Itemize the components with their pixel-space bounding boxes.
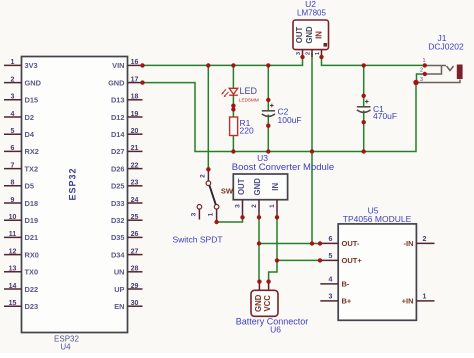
svg-text:ESP32: ESP32 <box>68 167 78 200</box>
svg-text:D15: D15 <box>25 96 39 105</box>
svg-text:D2: D2 <box>25 113 34 122</box>
U6 label Battery Connector <box>236 317 309 335</box>
svg-text:IN: IN <box>314 31 323 39</box>
svg-text:TX2: TX2 <box>25 164 39 173</box>
svg-text:-IN: -IN <box>404 239 414 248</box>
svg-text:OUT+: OUT+ <box>342 256 363 265</box>
node U3 OUT pin end <box>240 215 244 219</box>
svg-text:VIN: VIN <box>112 61 124 70</box>
node LED branch on VIN rail <box>231 63 235 67</box>
ESP32 pin 9 (D18) <box>4 197 38 208</box>
svg-text:OUT-: OUT- <box>342 239 360 248</box>
svg-text:9: 9 <box>11 197 15 204</box>
svg-text:21: 21 <box>131 145 139 152</box>
svg-text:220: 220 <box>240 126 254 136</box>
svg-text:D34: D34 <box>111 250 125 259</box>
wire switch pin1 to U3 OUT <box>217 217 243 222</box>
ESP32 module U4 body <box>22 57 128 333</box>
ESP32 pin 3 (D15) <box>4 94 38 105</box>
U2 pin 1 (IN) <box>315 50 322 57</box>
svg-text:100uF: 100uF <box>278 115 302 125</box>
node U5 OUT- pin end <box>318 241 322 245</box>
U3 pin 3 (OUT) <box>234 200 242 218</box>
svg-text:D12: D12 <box>111 113 125 122</box>
resistor R1 220 <box>230 117 254 136</box>
svg-text:2: 2 <box>306 52 312 55</box>
node C1 branch on input rail <box>362 63 366 67</box>
wire VIN rail (ESP32 pin16 to U2 OUT) <box>143 57 303 65</box>
node U3 GND pin end <box>257 215 261 219</box>
node switch branch on VIN rail <box>206 63 210 67</box>
capacitor C1 470uF (polarized) <box>357 100 397 121</box>
ESP32 pin 2 (GND) <box>4 76 42 87</box>
node U2 IN pin end <box>319 55 323 59</box>
svg-text:2: 2 <box>251 204 258 208</box>
ESP32 pin 12 (RX0) <box>4 248 39 259</box>
svg-text:+IN: +IN <box>402 297 414 306</box>
ESP32 pin 21 (D27) <box>111 145 143 156</box>
wire U2 IN to jack pin1 rail <box>322 57 425 65</box>
svg-text:4: 4 <box>11 111 15 118</box>
svg-text:4: 4 <box>329 276 333 283</box>
svg-text:D13: D13 <box>111 96 125 105</box>
boost converter module U3 <box>232 153 334 200</box>
svg-text:26: 26 <box>131 231 139 238</box>
svg-text:16: 16 <box>131 59 139 66</box>
wire U3 IN to U5 OUT+ <box>277 259 320 261</box>
voltage regulator U2 LM7805 <box>293 0 329 50</box>
svg-text:D26: D26 <box>111 164 125 173</box>
ESP32 pin 29 (UP) <box>114 283 142 294</box>
ESP32 pin 16 (VIN) <box>112 59 142 70</box>
svg-text:Switch SPDT: Switch SPDT <box>172 235 222 245</box>
svg-text:29: 29 <box>131 283 139 290</box>
svg-text:12: 12 <box>9 248 17 255</box>
ESP32 pin 18 (D13) <box>111 94 143 105</box>
svg-text:LED: LED <box>240 86 258 96</box>
svg-text:D22: D22 <box>25 285 39 294</box>
svg-text:Boost Converter Module: Boost Converter Module <box>232 162 334 173</box>
svg-text:470uF: 470uF <box>373 111 397 121</box>
svg-text:D27: D27 <box>111 147 125 156</box>
svg-text:DCJ0202: DCJ0202 <box>428 42 464 52</box>
ESP32 pin 5 (D4) <box>4 128 35 139</box>
node U5 OUT+ pin end <box>318 258 322 262</box>
svg-text:GND: GND <box>108 78 125 87</box>
U5 pin 4 (B-) <box>320 276 350 288</box>
svg-text:18: 18 <box>131 94 139 101</box>
node IN to OUT+ junction <box>275 258 279 262</box>
svg-text:11: 11 <box>9 231 17 238</box>
wire U3 GND to U5 OUT- <box>259 243 320 245</box>
svg-text:D23: D23 <box>25 302 39 311</box>
ESP32 pin 30 (EN) <box>114 300 142 311</box>
node U3 IN pin end <box>275 215 279 219</box>
capacitor C2 100uF (polarized) <box>262 104 302 125</box>
svg-text:TP4056 MODULE: TP4056 MODULE <box>343 214 412 224</box>
svg-text:D18: D18 <box>25 199 39 208</box>
U6 GND pin stub <box>258 282 260 291</box>
node U2 GND on GND rail <box>310 149 314 153</box>
ESP32 pin 23 (D25) <box>111 180 143 191</box>
wire LED cathode to R1 <box>232 95 234 117</box>
node R1 on GND rail <box>231 149 235 153</box>
svg-text:D4: D4 <box>25 130 35 139</box>
svg-text:20: 20 <box>131 128 139 135</box>
wire C2 branch bottom <box>267 115 269 152</box>
svg-text:D14: D14 <box>111 130 125 139</box>
ESP32 pin 17 (GND) <box>108 76 142 87</box>
svg-text:B-: B- <box>342 280 350 289</box>
svg-text:1: 1 <box>423 58 426 64</box>
svg-text:1: 1 <box>11 59 15 66</box>
svg-text:1: 1 <box>208 212 215 216</box>
svg-text:19: 19 <box>131 111 139 118</box>
battery connector U6 <box>251 290 278 316</box>
svg-text:5: 5 <box>11 128 15 135</box>
svg-text:U6: U6 <box>270 325 281 335</box>
svg-text:8: 8 <box>11 180 15 187</box>
node R1 top <box>231 107 235 111</box>
wire U2 GND vertical down to OUT- line <box>311 53 313 244</box>
svg-text:GND: GND <box>305 26 314 44</box>
ESP32 pin 1 (3V3) <box>4 59 38 70</box>
svg-text:2: 2 <box>11 76 15 83</box>
svg-text:3: 3 <box>190 212 197 216</box>
svg-text:28: 28 <box>131 266 139 273</box>
svg-text:RX0: RX0 <box>25 250 39 259</box>
ESP32 pin 6 (RX2) <box>4 145 39 156</box>
wire C1 branch bottom <box>363 111 365 152</box>
svg-text:13: 13 <box>9 266 17 273</box>
ESP32 pin 15 (D23) <box>4 300 38 311</box>
node LED cathode <box>231 104 235 108</box>
node C1 on GND rail <box>362 149 366 153</box>
svg-text:3: 3 <box>329 293 333 300</box>
U2 pin 3 (OUT) <box>296 50 303 57</box>
switch pin 3 stub <box>190 209 199 220</box>
svg-text:3: 3 <box>234 204 241 208</box>
U3 pin 1 (IN) <box>269 200 277 218</box>
U5 pin 6 (OUT-) <box>320 236 360 248</box>
svg-text:LM7805: LM7805 <box>297 9 326 18</box>
U3 pin 2 (GND) <box>251 200 259 218</box>
svg-text:1: 1 <box>269 204 276 208</box>
svg-text:B+: B+ <box>342 297 352 306</box>
node U2 OUT pin end <box>300 55 304 59</box>
svg-text:3V3: 3V3 <box>25 61 38 70</box>
wire R1 to bottom rail <box>232 136 234 152</box>
U2 pin 2 (GND) <box>306 50 313 57</box>
ESP32 pin 13 (TX0) <box>4 266 38 277</box>
wire C2 branch top <box>267 65 269 110</box>
svg-text:3: 3 <box>11 94 15 101</box>
ESP32 pin 26 (D35) <box>111 231 143 242</box>
svg-text:GND: GND <box>253 178 262 196</box>
svg-text:UN: UN <box>114 268 125 277</box>
ESP32 reference label U4 <box>54 335 79 352</box>
svg-text:7: 7 <box>11 162 15 169</box>
switch SPDT <box>197 181 219 209</box>
ESP32 pin 27 (D34) <box>111 248 143 259</box>
svg-text:UP: UP <box>114 285 124 294</box>
svg-text:D5: D5 <box>25 182 34 191</box>
node jack sleeve junction <box>413 80 418 85</box>
svg-text:25: 25 <box>131 214 139 221</box>
svg-text:2: 2 <box>423 236 427 243</box>
wire to battery connector VCC <box>269 260 277 281</box>
svg-text:17: 17 <box>131 76 139 83</box>
svg-text:14: 14 <box>9 283 17 290</box>
svg-text:27: 27 <box>131 248 139 255</box>
svg-text:6: 6 <box>329 236 333 243</box>
svg-text:IN: IN <box>271 183 280 191</box>
svg-text:1: 1 <box>423 293 427 300</box>
U5 pin 1 (+IN) <box>402 293 435 305</box>
U5 pin 5 (OUT+) <box>320 253 362 265</box>
node C1 top <box>362 94 366 98</box>
svg-text:D19: D19 <box>25 216 39 225</box>
wire U3 IN down <box>276 217 278 260</box>
node U2 GND line on OUT- wire <box>310 241 314 245</box>
ESP32 pin 20 (D14) <box>111 128 143 139</box>
svg-text:10: 10 <box>9 214 17 221</box>
svg-text:SW: SW <box>221 187 234 196</box>
ESP32 pin 8 (D5) <box>4 180 34 191</box>
ESP32 pin 14 (D22) <box>4 283 38 294</box>
LED (LED5MM) <box>221 86 259 104</box>
ESP32 pin 22 (D26) <box>111 162 143 173</box>
svg-text:30: 30 <box>131 300 139 307</box>
svg-text:2: 2 <box>420 68 423 74</box>
U6 VCC pin stub <box>268 282 270 291</box>
wire jack pin2 to GND junction <box>417 74 425 83</box>
svg-text:23: 23 <box>131 180 139 187</box>
U5 pin 3 (B+) <box>320 293 352 305</box>
svg-text:2: 2 <box>199 174 206 178</box>
ESP32 pin 7 (TX2) <box>4 162 38 173</box>
node C2 top <box>266 98 270 102</box>
wire switch branch from VIN rail <box>207 65 209 169</box>
ESP32 pin 25 (D32) <box>111 214 143 225</box>
ESP32 pin 11 (D21) <box>4 231 38 242</box>
svg-text:OUT: OUT <box>295 27 304 44</box>
svg-text:5: 5 <box>329 253 333 260</box>
svg-text:LED5MM: LED5MM <box>239 98 259 104</box>
wire C1 branch top <box>363 65 365 106</box>
DC barrel jack J1 DCJ0202 <box>417 33 464 83</box>
svg-text:6: 6 <box>11 145 15 152</box>
U5 pin 2 (-IN) <box>404 236 435 248</box>
svg-text:GND: GND <box>25 78 42 87</box>
node C1 bottom <box>362 120 366 124</box>
svg-text:22: 22 <box>131 162 139 169</box>
svg-text:3: 3 <box>420 77 423 83</box>
ESP32 pin 19 (D12) <box>111 111 143 122</box>
node U6 VCC pin end <box>266 279 270 283</box>
node C2 branch on VIN rail <box>266 63 270 67</box>
svg-text:D32: D32 <box>111 216 125 225</box>
node switch pin2 end <box>206 167 210 171</box>
svg-text:VCC: VCC <box>263 295 272 312</box>
svg-text:D25: D25 <box>111 182 125 191</box>
charger module U5 TP4056 MODULE <box>338 206 416 321</box>
svg-text:15: 15 <box>9 300 17 307</box>
node VIN pin16 <box>140 63 144 67</box>
wire GND net (ESP32 pin17 down, bottom rail, up to jack sleeve) <box>143 83 417 152</box>
node U6 GND pin end <box>257 279 261 283</box>
svg-text:24: 24 <box>131 197 139 204</box>
svg-text:D21: D21 <box>25 233 39 242</box>
node jack pin2 <box>423 72 427 76</box>
svg-text:D35: D35 <box>111 233 125 242</box>
node C2 on GND rail <box>266 149 270 153</box>
svg-text:U4: U4 <box>60 343 71 352</box>
node jack pin1 <box>423 63 427 67</box>
svg-text:TX0: TX0 <box>25 268 39 277</box>
svg-text:D33: D33 <box>111 199 125 208</box>
ESP32 pin 24 (D33) <box>111 197 143 208</box>
svg-text:RX2: RX2 <box>25 147 39 156</box>
svg-text:OUT: OUT <box>237 178 246 195</box>
ESP32 pin 4 (D2) <box>4 111 34 122</box>
switch pin 1 stub <box>208 209 217 222</box>
wire LED branch from VIN rail <box>232 65 234 88</box>
ESP32 pin 28 (UN) <box>114 266 143 277</box>
switch pin 2 stub <box>199 169 208 181</box>
svg-text:GND: GND <box>254 294 263 312</box>
svg-text:EN: EN <box>114 302 124 311</box>
node GND to OUT- junction <box>257 241 261 245</box>
node switch pin1 end <box>214 220 218 224</box>
wire U3 GND down to battery connector GND <box>258 217 260 281</box>
node GND pin17 <box>140 80 144 84</box>
node C2 bottom <box>266 124 270 128</box>
ESP32 pin 10 (D19) <box>4 214 38 225</box>
